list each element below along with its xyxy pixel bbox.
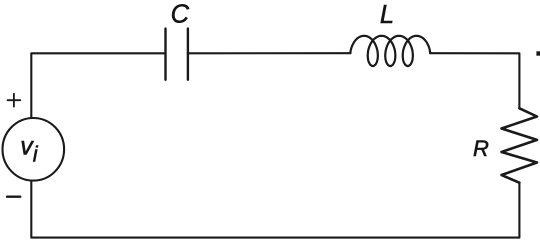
svg-text:R: R — [473, 136, 489, 161]
svg-text:C: C — [171, 0, 190, 28]
svg-text:vi: vi — [20, 132, 39, 166]
svg-text:L: L — [380, 1, 394, 29]
